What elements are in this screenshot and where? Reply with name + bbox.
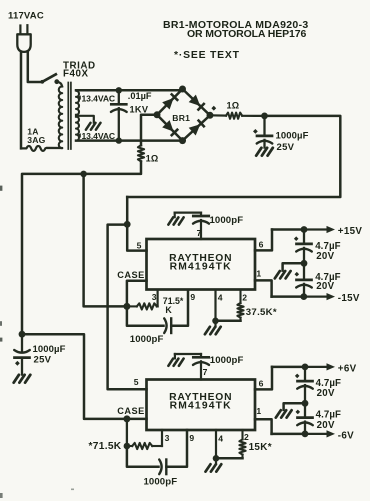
node +6V junction xyxy=(302,364,309,371)
wire U1 pin4 xyxy=(214,290,216,321)
svg-text:4: 4 xyxy=(218,433,223,443)
svg-text:6: 6 xyxy=(259,240,264,250)
svg-text:20V: 20V xyxy=(316,251,334,262)
label U2 name xyxy=(169,392,232,412)
svg-text:.01µF: .01µF xyxy=(128,91,152,101)
svg-text:5: 5 xyxy=(137,240,142,250)
wire DC+ to right rail xyxy=(127,116,340,197)
svg-text:13.4VAC: 13.4VAC xyxy=(82,93,116,103)
capacitor C4 xyxy=(175,213,209,239)
label +15V xyxy=(338,226,363,237)
svg-text:3: 3 xyxy=(152,292,157,302)
svg-text:20V: 20V xyxy=(316,281,334,292)
node BR1 bottom xyxy=(179,137,186,144)
svg-text:CASE: CASE xyxy=(117,270,145,280)
transformer T1 primary winding xyxy=(59,86,62,148)
svg-text:3AG: 3AG xyxy=(27,135,45,145)
svg-text:+15V: +15V xyxy=(338,226,363,237)
arrow -15V xyxy=(304,293,335,300)
node +15V junction xyxy=(301,226,308,233)
svg-text:-6V: -6V xyxy=(338,430,354,441)
capacitor C10 xyxy=(297,367,313,403)
svg-text:25V: 25V xyxy=(34,355,52,366)
wire negative rail xyxy=(22,161,141,334)
svg-text:9: 9 xyxy=(190,292,195,302)
resistor R4 xyxy=(237,290,243,321)
wire U1 pin6 xyxy=(255,230,272,251)
label R5 value xyxy=(89,441,122,452)
label U1 CASE xyxy=(117,270,145,280)
pin label U2-7 xyxy=(203,367,208,377)
svg-text:4.7µF: 4.7µF xyxy=(316,410,341,421)
wire lower tap xyxy=(76,139,183,142)
label U2 CASE xyxy=(117,406,145,416)
switch S1 xyxy=(40,74,62,86)
pin label U2-4 xyxy=(218,433,223,443)
pin label U1-7 xyxy=(197,228,202,238)
wire plug right lead xyxy=(28,52,42,82)
diode BR1 bottom-left xyxy=(162,120,178,136)
svg-text:K: K xyxy=(165,305,172,315)
polarity mark C2 xyxy=(253,129,258,134)
svg-text:20V: 20V xyxy=(317,388,335,399)
pin label U1-9 xyxy=(190,292,195,302)
svg-text:1: 1 xyxy=(256,268,261,278)
label C11 value xyxy=(316,410,341,432)
node feed split xyxy=(124,221,131,228)
node BR1 left xyxy=(154,111,161,118)
label 13.4VAC upper xyxy=(77,93,115,103)
wire +6V rail xyxy=(272,366,305,369)
pin label U1-4 xyxy=(218,292,223,302)
svg-text:1000µF: 1000µF xyxy=(276,131,309,142)
svg-text:9: 9 xyxy=(189,433,194,443)
transformer T1 core xyxy=(68,83,71,150)
pin label U2-5 xyxy=(134,377,139,387)
ground U1 pin4 xyxy=(205,321,221,334)
node R5 junction xyxy=(124,443,131,450)
label -6V xyxy=(338,430,354,441)
label C8 value xyxy=(210,355,244,366)
capacitor C7 xyxy=(296,263,312,296)
pin label U1-3 xyxy=(152,292,157,302)
svg-text:1000pF: 1000pF xyxy=(210,215,244,226)
pin label U2-1 xyxy=(256,406,261,416)
node C3 junction xyxy=(19,331,26,338)
node U1 case junction xyxy=(123,303,130,310)
svg-text:-15V: -15V xyxy=(338,293,360,304)
svg-text:BR1: BR1 xyxy=(172,113,190,123)
node upper tap junction xyxy=(116,87,122,93)
svg-text:1Ω: 1Ω xyxy=(227,101,240,111)
node DC+ junction xyxy=(261,113,268,120)
svg-text:117VAC: 117VAC xyxy=(8,11,44,22)
pin label U2-3 xyxy=(165,433,170,443)
svg-text:7: 7 xyxy=(197,228,202,238)
svg-text:5: 5 xyxy=(134,377,139,387)
capacitor C8 xyxy=(175,354,209,380)
wire U2 pin6 xyxy=(255,367,272,390)
svg-text:RM4194TK: RM4194TK xyxy=(170,262,232,273)
label F40X xyxy=(63,69,89,80)
ground center tap xyxy=(86,123,101,130)
pin label U1-1 xyxy=(256,268,261,278)
wire U2 pin1 xyxy=(255,419,272,434)
wire negative to U2 case xyxy=(22,334,127,419)
capacitor C6 xyxy=(296,230,312,264)
svg-text:1000pF: 1000pF xyxy=(130,334,164,345)
wire plug left lead xyxy=(20,52,23,148)
label C7 value xyxy=(315,272,340,292)
svg-text:OR MOTOROLA HEP176: OR MOTOROLA HEP176 xyxy=(187,28,306,40)
node -15V junction xyxy=(300,293,307,300)
resistor R1 xyxy=(210,113,265,119)
wire U1 mid ground xyxy=(283,263,304,270)
svg-text:1000µF: 1000µF xyxy=(33,344,66,355)
pin label U2-2 xyxy=(244,432,249,442)
diode BR1 top-left xyxy=(162,94,178,110)
label C1 value xyxy=(128,91,152,114)
plug P1 xyxy=(17,25,30,52)
node U1 pin4 junction xyxy=(212,318,219,325)
capacitor C2 xyxy=(257,116,273,148)
wire R4 to ground node xyxy=(216,320,241,323)
polarity mark C11 xyxy=(296,410,301,415)
diode BR1 bottom-right xyxy=(189,120,205,136)
ground U1 outputs xyxy=(275,271,291,278)
resistor R3 xyxy=(127,303,158,309)
svg-text:1000pF: 1000pF xyxy=(144,477,178,488)
node U1 output mid junction xyxy=(301,260,308,267)
label C4 value xyxy=(210,215,244,226)
svg-text:6: 6 xyxy=(259,379,264,389)
svg-text:2: 2 xyxy=(244,432,249,442)
op-amp U2 box xyxy=(147,380,256,431)
wire edge artifact xyxy=(0,186,3,498)
wire BR1 negative lead xyxy=(141,115,157,145)
pin label U2-9 xyxy=(189,433,194,443)
label R3 value xyxy=(163,296,184,315)
svg-text:1KV: 1KV xyxy=(130,104,149,114)
wire case node down xyxy=(126,419,128,446)
node -6V junction xyxy=(302,431,309,438)
arrow -6V xyxy=(305,430,335,437)
wire secondary center tap xyxy=(76,115,94,123)
label C3 value xyxy=(33,344,66,366)
label BR1 xyxy=(172,113,190,123)
node U2 output mid junction xyxy=(302,400,309,407)
node U2 pin4 junction xyxy=(213,455,220,462)
wire feed to U2 input xyxy=(108,225,147,390)
capacitor C3 xyxy=(14,334,30,374)
wire U1 pin3 xyxy=(157,290,159,306)
label C9 value xyxy=(144,477,178,488)
node BR1 top xyxy=(179,86,186,93)
wire U1 case xyxy=(127,281,147,307)
wire U2 case to box xyxy=(127,418,147,421)
svg-text:15K*: 15K* xyxy=(249,442,272,453)
transformer T1 secondary winding upper xyxy=(76,91,79,115)
svg-text:25V: 25V xyxy=(277,142,295,153)
svg-text:*·SEE TEXT: *·SEE TEXT xyxy=(174,50,240,61)
node lower tap junction xyxy=(116,137,122,143)
capacitor C11 xyxy=(297,403,313,434)
capacitor C9 xyxy=(127,430,187,474)
label R4 value xyxy=(246,307,277,318)
svg-text:*71.5K: *71.5K xyxy=(89,441,122,452)
label TRIAD xyxy=(63,60,96,71)
label R1 value xyxy=(227,101,240,111)
svg-text:1Ω: 1Ω xyxy=(146,154,159,164)
ground C3 xyxy=(14,375,31,383)
wire DC+ down feed xyxy=(126,197,129,224)
svg-text:13.4VAC: 13.4VAC xyxy=(82,131,116,141)
fuse F1 xyxy=(21,146,62,151)
label -15V xyxy=(338,293,360,304)
svg-text:F40X: F40X xyxy=(63,69,89,80)
pin label U1-2 xyxy=(242,292,247,302)
polarity mark C7 xyxy=(295,272,300,277)
label C10 value xyxy=(316,378,341,399)
label U1 name xyxy=(169,253,232,273)
label 13.4VAC lower xyxy=(77,131,115,141)
wire U2 mid ground xyxy=(284,403,305,410)
diode BR1 top-right xyxy=(189,95,205,111)
wire -15V rail xyxy=(272,295,304,298)
polarity mark C10 xyxy=(295,374,300,379)
label header line 2 xyxy=(187,28,306,40)
wire feed to U1 input xyxy=(127,224,146,250)
node U2 case junction xyxy=(123,415,130,422)
wire R6 to ground node xyxy=(216,457,243,460)
ground U2 outputs xyxy=(276,410,292,417)
svg-text:1: 1 xyxy=(256,406,261,416)
svg-text:7: 7 xyxy=(203,367,208,377)
label R6 value xyxy=(249,442,272,453)
svg-text:+6V: +6V xyxy=(338,363,357,374)
op-amp U1 box xyxy=(147,239,256,290)
svg-text:CASE: CASE xyxy=(117,406,145,416)
transformer T1 secondary winding lower xyxy=(76,117,79,141)
label header line 1 xyxy=(163,19,309,31)
label see-text note xyxy=(174,50,240,61)
wire U1 pin1 xyxy=(255,280,272,296)
arrow +6V xyxy=(305,363,335,370)
resistor R5 xyxy=(127,443,162,449)
wire -6V rail xyxy=(272,433,305,436)
svg-text:2: 2 xyxy=(242,292,247,302)
node BR1 right xyxy=(207,112,214,119)
wire negative to U1 case xyxy=(84,174,127,307)
polarity mark C3 xyxy=(15,361,20,366)
capacitor C1 xyxy=(111,90,127,140)
capacitor C5 xyxy=(127,290,188,333)
svg-text:3: 3 xyxy=(165,433,170,443)
label C6 value xyxy=(315,241,340,262)
wire U2 pin3 xyxy=(161,430,163,446)
wire +15V rail xyxy=(272,228,304,231)
svg-text:20V: 20V xyxy=(317,420,335,431)
resistor R2 xyxy=(138,145,144,161)
node negative rail tap xyxy=(80,171,87,178)
svg-text:RM4194TK: RM4194TK xyxy=(170,401,232,412)
label fuse value xyxy=(27,127,45,145)
pin label U1-5 xyxy=(137,240,142,250)
label +6V xyxy=(338,363,357,374)
svg-text:4: 4 xyxy=(218,292,223,302)
wire U2 pin4 xyxy=(215,430,217,458)
label C5 value xyxy=(130,334,164,345)
stray mark xyxy=(71,489,74,491)
label 117VAC xyxy=(8,11,44,22)
ground U2 pin4 xyxy=(206,458,222,471)
ground C4 xyxy=(168,217,183,224)
polarity mark bridge output xyxy=(211,106,216,111)
label C2 value xyxy=(276,131,309,153)
label R2 value xyxy=(146,154,159,164)
svg-text:37.5K*: 37.5K* xyxy=(246,307,277,318)
polarity mark C6 xyxy=(294,236,299,241)
resistor R6 xyxy=(239,430,245,458)
arrow +15V xyxy=(304,226,335,233)
pin label U1-6 xyxy=(259,240,264,250)
svg-text:1000pF: 1000pF xyxy=(210,355,244,366)
bridge BR1 frame xyxy=(157,89,210,141)
ground C8 xyxy=(168,359,183,366)
ground C2 xyxy=(256,148,273,156)
pin label U2-6 xyxy=(259,379,264,389)
wire upper tap xyxy=(76,89,183,92)
